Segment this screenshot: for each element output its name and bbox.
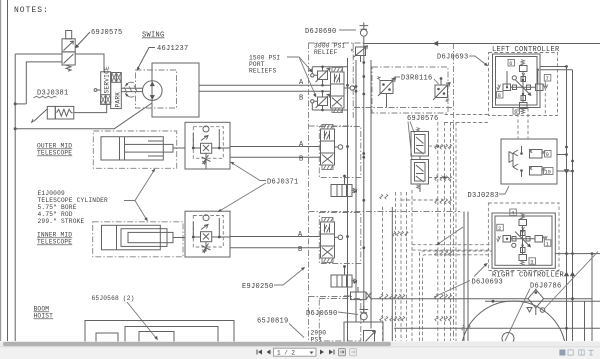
compensator S3	[331, 275, 352, 287]
work line A swing	[199, 84, 331, 86]
numbered port 2	[497, 224, 504, 231]
border frame left edge	[0, 0, 2, 341]
leader 46J1237	[138, 48, 156, 70]
spring inside D3J0381	[57, 109, 73, 116]
svg-text:8: 8	[498, 93, 501, 99]
pilot valve box D3J0283	[501, 139, 557, 184]
crossed squares top of park column	[112, 73, 117, 83]
svg-text:299." STROKE: 299." STROKE	[38, 218, 85, 225]
piston	[119, 137, 121, 160]
numbered port 6	[508, 60, 515, 67]
leader	[338, 312, 358, 315]
wire through valve	[193, 147, 230, 149]
holding valve D6J0371 (outer) box	[185, 122, 230, 169]
svg-text:TELESCOPE: TELESCOPE	[37, 150, 72, 157]
right controller dash box	[488, 203, 559, 271]
left controller outer box	[493, 54, 541, 108]
check ball circle	[203, 126, 209, 132]
boom hoist small port	[96, 333, 118, 351]
section S2 dash box	[319, 127, 361, 178]
bottom reducing valve	[520, 103, 528, 109]
leader telescope cylinder down	[135, 201, 147, 220]
rotate icon 2 (disabled)	[350, 349, 357, 356]
nav next-page button	[320, 350, 335, 355]
numbered port 7	[544, 75, 551, 82]
reducing valve 10	[530, 167, 543, 176]
port relief swing A	[318, 71, 328, 80]
wire through valve	[193, 236, 230, 238]
valve 69J0575	[62, 39, 75, 52]
svg-text:NOTES:: NOTES:	[14, 6, 49, 15]
view icon facing pages	[568, 350, 573, 355]
controller to rail links	[540, 67, 573, 70]
right rail 2	[572, 70, 574, 341]
svg-text:SWING: SWING	[142, 32, 165, 40]
swing motor dash box	[136, 70, 177, 108]
scrollbar thumb	[3, 342, 391, 346]
relief arrow below	[202, 242, 211, 253]
pilot dash cross-lines	[401, 115, 492, 342]
work line B inner-mid	[230, 247, 321, 249]
spring of 69J0575	[66, 65, 71, 71]
svg-text:TELESCOPE: TELESCOPE	[37, 239, 72, 246]
svg-text:E1J0009: E1J0009	[38, 190, 65, 197]
leaders 69J0576	[410, 122, 415, 134]
right controller inner box	[495, 216, 552, 265]
svg-text:D6J0690: D6J0690	[305, 28, 337, 36]
compensator S2	[331, 185, 352, 197]
view icon single page	[560, 350, 565, 355]
pilot section dash box	[372, 67, 448, 113]
node	[192, 236, 195, 239]
wire 69J0575 right to service block	[75, 54, 104, 72]
svg-text:10: 10	[545, 169, 551, 175]
rail nodes	[362, 61, 365, 64]
bypass element with X	[351, 292, 367, 300]
svg-text:E9J0250: E9J0250	[242, 283, 274, 291]
long line y328	[394, 327, 600, 329]
node junction	[14, 102, 17, 105]
svg-text:6: 6	[514, 109, 517, 115]
leader to right square	[434, 79, 439, 84]
nav last-page button	[329, 350, 335, 355]
return line lower	[485, 300, 600, 302]
junction nodes	[346, 84, 349, 87]
svg-text:6: 6	[509, 61, 512, 67]
svg-text:RELIEFS: RELIEFS	[249, 68, 276, 75]
work line B outer-mid	[230, 156, 321, 158]
internal mech	[509, 150, 518, 170]
wires to rails	[557, 155, 573, 172]
motor arrow down	[150, 95, 155, 100]
manual lever of D3J0381	[32, 109, 48, 122]
crossed squares bottom of service column	[101, 95, 106, 105]
solenoid vent valve right	[435, 85, 448, 98]
numbered port 3	[529, 258, 536, 265]
numbered port 8	[497, 92, 504, 99]
top reducing valve	[520, 66, 528, 72]
pilot line bundle 1	[382, 207, 384, 342]
border frame inner line	[7, 0, 9, 341]
node	[218, 236, 221, 239]
solenoid cap bottom	[332, 108, 343, 113]
drain pair vertical	[463, 212, 465, 342]
leader diagonal to below	[505, 289, 530, 342]
drain stub right	[584, 301, 586, 341]
svg-text:OUTER MID: OUTER MID	[37, 143, 72, 150]
nav prev-page button	[267, 350, 271, 355]
svg-text:B: B	[299, 95, 304, 103]
node junction	[14, 127, 17, 130]
leader	[339, 29, 356, 31]
leader diagonal from upper right	[545, 252, 599, 309]
service-park block: park column	[111, 73, 122, 109]
joystick mech right controller	[497, 214, 547, 266]
rotate icon 1	[339, 349, 346, 356]
right controller wire to rails	[555, 253, 600, 255]
accumulator charging valve D3J0381	[47, 106, 55, 119]
hose break squiggles	[380, 144, 452, 321]
small circles at diamond	[527, 308, 532, 313]
rotation arrow top	[126, 82, 135, 85]
valve bank boundary top	[309, 42, 364, 44]
svg-text:69J0576: 69J0576	[407, 115, 439, 123]
wire valve lower-left	[26, 62, 62, 104]
numbered port 1	[544, 240, 551, 247]
leader	[499, 186, 509, 194]
leader E9J0250	[274, 269, 304, 286]
right controller outer box	[492, 213, 555, 268]
left controller dash box	[489, 53, 558, 116]
relief valve 3000psi	[356, 47, 366, 56]
valve square	[201, 143, 212, 153]
diagonal actuator	[516, 80, 531, 95]
svg-text:D3J0283: D3J0283	[468, 192, 500, 200]
leader telescope cylinder up	[124, 171, 154, 201]
inner dash box	[193, 127, 223, 159]
svg-text:5.75" BORE: 5.75" BORE	[38, 204, 77, 211]
svg-text:w: w	[354, 279, 358, 286]
leaders 1500 psi	[287, 57, 312, 71]
svg-text:w: w	[354, 188, 358, 195]
view icon width	[589, 350, 594, 355]
port relief swing B	[318, 97, 328, 106]
rails vertical	[347, 58, 349, 341]
svg-text:D6J0371: D6J0371	[267, 179, 299, 187]
svg-text:D6J0690: D6J0690	[306, 310, 338, 318]
svg-text:4.75" ROD: 4.75" ROD	[38, 211, 73, 218]
valve box outlet down	[205, 163, 207, 169]
wire valve to left rail	[15, 53, 62, 55]
svg-text:BOOM: BOOM	[34, 306, 50, 313]
left controller inner box	[496, 57, 538, 106]
svg-text:D6J0693: D6J0693	[437, 54, 469, 62]
numbered port 5	[513, 108, 520, 115]
svg-text:SERVICE: SERVICE	[103, 66, 110, 93]
section S4 dash box	[319, 299, 361, 342]
rod line	[173, 237, 185, 239]
pilot stem in controller	[544, 82, 546, 116]
wire from node to 26 rail	[15, 103, 26, 105]
section divider dash	[309, 211, 461, 213]
svg-text:A: A	[299, 79, 304, 87]
svg-text:D6J0693: D6J0693	[472, 279, 504, 287]
svg-text:4: 4	[511, 211, 514, 217]
section S3 dash box	[319, 213, 361, 264]
svg-text:1 / 2: 1 / 2	[277, 350, 295, 357]
svg-text:D3R0116: D3R0116	[401, 75, 433, 83]
spool valve outer-mid S2	[321, 129, 335, 165]
wire D3J0381 to park block	[74, 104, 107, 112]
leader	[535, 289, 536, 292]
leader to left square	[392, 77, 400, 80]
check ball circle	[203, 215, 209, 221]
svg-text:2900: 2900	[311, 330, 327, 337]
cross links	[511, 72, 536, 103]
leader D6J0786 arrow	[438, 227, 463, 244]
motor arrow up	[150, 82, 155, 87]
rotation arrow bottom	[126, 94, 135, 97]
long line y298	[372, 298, 593, 300]
valve bank boundary dash-dot left (E9J0250 line)	[308, 43, 310, 341]
work line B swing	[199, 90, 331, 92]
boom hoist cylinder inner	[139, 332, 174, 352]
pilot circle S3	[335, 236, 339, 238]
view icon book	[579, 350, 584, 355]
small pump circle	[502, 333, 514, 345]
right reducing valve	[536, 84, 544, 91]
brake port stub	[97, 89, 101, 91]
pilot circle S2	[335, 146, 339, 148]
connecting stem	[419, 156, 421, 192]
solenoid pilot box of 69J0575	[66, 31, 72, 39]
valve square	[201, 232, 212, 242]
svg-text:69J0575: 69J0575	[91, 29, 123, 37]
leader D6J0371 to inner valve	[220, 183, 267, 211]
inner mid cylinder dash box	[93, 222, 183, 257]
dropdown caret	[310, 352, 314, 355]
inner sleeve line	[148, 141, 163, 156]
spool valve inner-mid S3	[321, 222, 335, 258]
left reducing valve	[503, 84, 511, 91]
wire left rail down	[14, 54, 16, 341]
stage 2	[121, 229, 167, 247]
svg-text:A: A	[299, 141, 304, 149]
solenoid reducing valve 1	[411, 132, 429, 157]
right rail 3	[591, 254, 593, 341]
pilot arrow	[201, 225, 208, 230]
svg-text:65J0819: 65J0819	[257, 318, 289, 326]
relief arrow below	[202, 153, 211, 164]
svg-text:65J0568 (2): 65J0568 (2)	[92, 295, 135, 302]
svg-text:2: 2	[498, 226, 501, 232]
reducing valve 9	[530, 150, 543, 159]
svg-text:B: B	[298, 246, 303, 254]
svg-text:INNER MID: INNER MID	[37, 232, 72, 239]
svg-text:TELESCOPE CYLINDER: TELESCOPE CYLINDER	[38, 197, 109, 204]
node on main line	[433, 41, 438, 46]
pilot circle S1	[344, 87, 350, 89]
svg-text:D6J0786: D6J0786	[530, 283, 562, 291]
svg-text:1: 1	[546, 241, 549, 247]
node	[218, 147, 221, 150]
rail nodes and arrows	[565, 146, 568, 149]
page number field	[274, 348, 317, 356]
valve bank boundary right	[453, 43, 455, 341]
work line A outer-mid	[230, 146, 321, 148]
scrollbar track	[0, 341, 600, 346]
leader 65J0819	[289, 324, 304, 338]
solenoid reducing valve 2	[411, 160, 429, 185]
inner dash box	[193, 216, 223, 248]
leader squiggle D3J0381	[34, 96, 57, 98]
svg-text:PARK: PARK	[115, 92, 122, 108]
svg-text:3: 3	[530, 259, 533, 265]
main line y43	[364, 43, 600, 45]
svg-text:A: A	[298, 231, 303, 239]
motor shaft double line	[121, 88, 143, 91]
section divider dash	[309, 125, 353, 127]
leader D6J0371 to outer valve	[232, 163, 266, 181]
svg-text:D: D	[0, 83, 1, 91]
boom hoist cylinder outer	[85, 321, 234, 351]
swing motor outer box	[152, 63, 199, 117]
pilot circle	[512, 76, 516, 80]
swing motor circle	[143, 81, 163, 101]
node	[192, 147, 195, 150]
holding valve D6J0371 (inner) box	[185, 211, 230, 257]
numbered port 4	[510, 209, 517, 216]
pump circle arc	[463, 301, 565, 341]
inner mid barrel	[102, 225, 161, 250]
boom hoist cylinder mid	[125, 327, 218, 352]
spool valve swing S1	[331, 72, 345, 108]
nav first-page button	[257, 350, 271, 355]
diamond flow divider D6J0786	[528, 290, 544, 308]
leader	[474, 265, 486, 277]
right rail 1	[566, 67, 568, 342]
solenoid vent valve left	[380, 81, 393, 94]
outer mid cylinder dash box	[93, 131, 176, 168]
svg-text:C: C	[0, 272, 1, 280]
svg-text:B: B	[299, 156, 304, 164]
toolbar background	[0, 347, 600, 359]
svg-text:RELIEF: RELIEF	[314, 49, 338, 56]
wire tank line horizontal	[15, 103, 152, 129]
section S1 dash box right edge	[352, 43, 354, 118]
check valve D6J0690 top	[360, 23, 369, 30]
svg-text:7: 7	[546, 76, 549, 82]
svg-text:9: 9	[546, 152, 549, 158]
check valve D6J0690 bottom	[360, 306, 369, 313]
solenoid cap top	[332, 68, 343, 73]
relief manifold 2900	[344, 322, 383, 347]
pilot line bundle 2	[438, 122, 456, 341]
leader	[469, 56, 487, 65]
svg-text:46J1237: 46J1237	[157, 45, 189, 53]
service-park block: service column	[101, 72, 111, 105]
leader to 69J0575	[77, 32, 91, 47]
rod	[125, 144, 174, 152]
stage 3	[128, 232, 173, 242]
leader 65J0568	[127, 302, 157, 339]
pilot manifold divider	[354, 107, 454, 109]
section divider dash	[309, 296, 353, 298]
rod to valve wire	[173, 147, 185, 149]
joystick mech left controller	[497, 60, 548, 114]
outer mid cylinder barrel	[101, 137, 163, 160]
controller pilot stems	[517, 108, 519, 139]
work line A inner-mid	[230, 236, 321, 238]
piston	[116, 225, 118, 250]
svg-text:HOIST: HOIST	[34, 313, 54, 320]
pilot arrow	[201, 136, 208, 141]
